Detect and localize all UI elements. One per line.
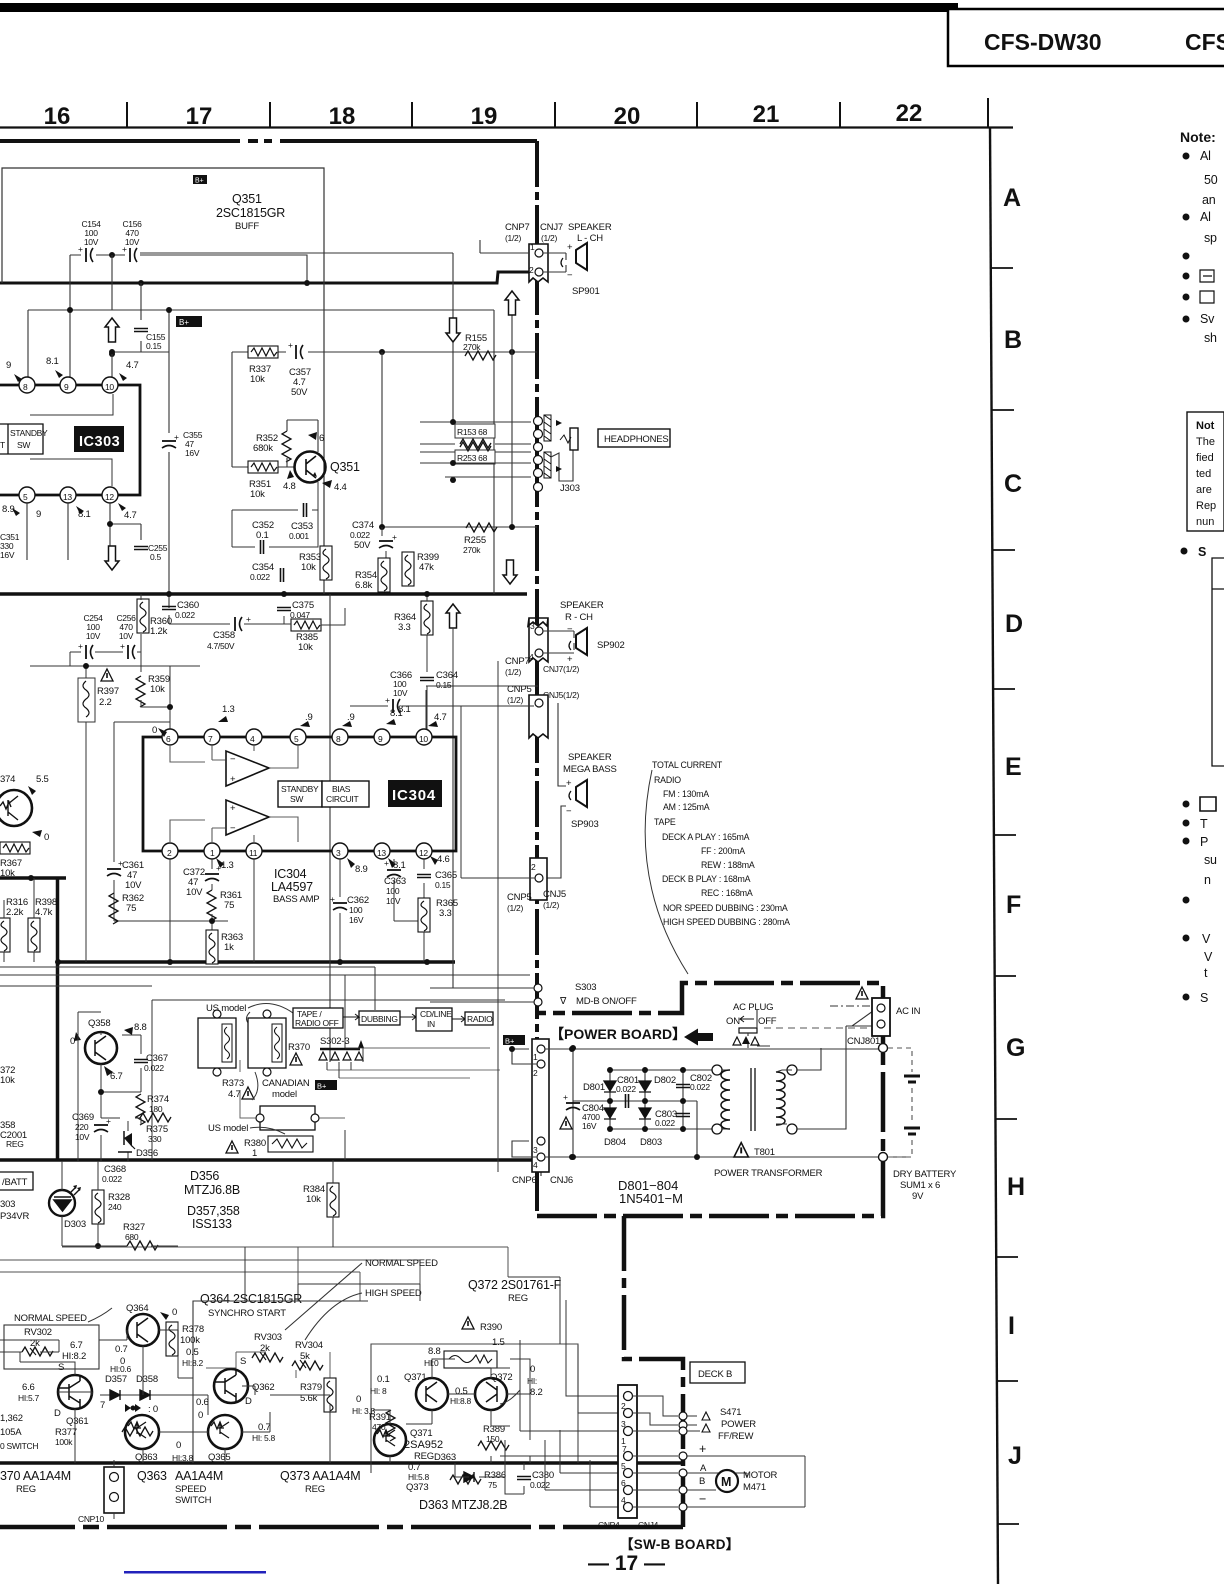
svg-text:RV302: RV302 — [24, 1327, 52, 1338]
svg-text:3.3: 3.3 — [439, 908, 452, 919]
svg-text:0.022: 0.022 — [616, 1084, 636, 1094]
svg-text:2.2k: 2.2k — [6, 907, 24, 918]
svg-text:50V: 50V — [354, 540, 371, 551]
svg-text:NORMAL SPEED: NORMAL SPEED — [365, 1258, 438, 1269]
svg-text:US model: US model — [206, 1003, 246, 1014]
svg-text:4: 4 — [529, 652, 534, 662]
svg-text:+: + — [122, 244, 127, 254]
svg-text:2: 2 — [531, 862, 536, 872]
svg-text:SP903: SP903 — [571, 819, 599, 830]
svg-text:2.2: 2.2 — [99, 697, 112, 708]
svg-text:sp: sp — [1204, 231, 1217, 245]
svg-text:MEGA BASS: MEGA BASS — [563, 764, 617, 775]
svg-text:REG: REG — [6, 1139, 24, 1149]
svg-text:0: 0 — [530, 1364, 535, 1375]
svg-text:R373: R373 — [222, 1078, 244, 1089]
svg-text:IC304: IC304 — [274, 867, 307, 881]
svg-text:9V: 9V — [912, 1191, 924, 1202]
svg-text:3: 3 — [533, 1145, 538, 1155]
svg-text:P34VR: P34VR — [0, 1211, 29, 1222]
svg-text:RV304: RV304 — [295, 1340, 323, 1351]
svg-text:9: 9 — [64, 382, 69, 392]
svg-text:【POWER BOARD】: 【POWER BOARD】 — [550, 1026, 686, 1042]
svg-text:−: − — [567, 270, 573, 281]
svg-text:8: 8 — [23, 382, 28, 392]
svg-text:100: 100 — [349, 905, 363, 915]
svg-text:16V: 16V — [185, 448, 200, 458]
svg-text:Note:: Note: — [1180, 129, 1216, 145]
svg-text:Al: Al — [1200, 149, 1211, 163]
svg-text:MTZJ6.8B: MTZJ6.8B — [184, 1183, 240, 1197]
svg-text:16: 16 — [44, 103, 71, 130]
svg-text:75: 75 — [126, 903, 136, 914]
svg-text:3: 3 — [336, 848, 341, 858]
svg-text:6: 6 — [621, 1478, 626, 1488]
svg-text:CNJ7(1/2): CNJ7(1/2) — [543, 664, 580, 674]
svg-text:L - CH: L - CH — [577, 233, 603, 244]
svg-text:D357: D357 — [105, 1374, 127, 1385]
svg-text:0.1: 0.1 — [256, 530, 269, 541]
svg-text:−: − — [230, 823, 236, 834]
svg-text:SPEAKER: SPEAKER — [560, 600, 604, 611]
svg-text:R378: R378 — [182, 1324, 204, 1335]
svg-text:6.7: 6.7 — [110, 1071, 123, 1082]
svg-text:D803: D803 — [640, 1137, 662, 1148]
svg-text:RADIO: RADIO — [654, 775, 681, 785]
svg-text:303: 303 — [0, 1199, 15, 1210]
svg-text:+: + — [230, 803, 236, 814]
svg-text:REG: REG — [508, 1293, 528, 1304]
svg-text:CNJ7: CNJ7 — [540, 222, 563, 233]
svg-text:an: an — [1202, 193, 1216, 207]
svg-text:M471: M471 — [743, 1482, 766, 1493]
svg-text:17: 17 — [186, 103, 213, 130]
svg-text:∇: ∇ — [559, 996, 567, 1007]
svg-text:1k: 1k — [224, 942, 234, 953]
svg-text:V: V — [1202, 932, 1211, 946]
svg-text:0: 0 — [152, 725, 157, 736]
svg-text:100k: 100k — [180, 1335, 200, 1346]
svg-text:SYNCHRO START: SYNCHRO START — [208, 1308, 286, 1319]
svg-text:+: + — [120, 641, 125, 651]
svg-text:su: su — [1204, 853, 1217, 867]
svg-text:+: + — [563, 1092, 568, 1102]
svg-text:DECK A PLAY : 165mA: DECK A PLAY : 165mA — [662, 832, 750, 842]
svg-text:Q364: Q364 — [126, 1303, 148, 1314]
svg-text:AC IN: AC IN — [896, 1006, 921, 1017]
svg-text:MD-B ON/OFF: MD-B ON/OFF — [576, 996, 637, 1007]
svg-text:8.9: 8.9 — [355, 864, 368, 875]
svg-text:3: 3 — [530, 621, 535, 631]
svg-text:CNP4: CNP4 — [598, 1520, 620, 1530]
svg-text:0.022: 0.022 — [350, 530, 370, 540]
svg-text:CIRCUIT: CIRCUIT — [326, 794, 358, 804]
svg-text:8.8: 8.8 — [134, 1022, 147, 1033]
svg-text:Q363: Q363 — [135, 1452, 157, 1463]
svg-text:REW : 188mA: REW : 188mA — [701, 860, 755, 870]
svg-text:+: + — [330, 894, 335, 904]
svg-text:HI:3.8: HI:3.8 — [172, 1453, 193, 1463]
svg-text:SPEAKER: SPEAKER — [568, 222, 612, 233]
svg-text:D358: D358 — [136, 1374, 158, 1385]
svg-text:16V: 16V — [0, 550, 15, 560]
svg-text:Q351: Q351 — [330, 460, 360, 474]
svg-text:S303: S303 — [575, 982, 596, 993]
svg-text:V: V — [1204, 950, 1213, 964]
svg-text:SWITCH: SWITCH — [175, 1495, 212, 1506]
svg-text:: 0: : 0 — [148, 1404, 158, 1415]
svg-text:D356: D356 — [136, 1148, 158, 1159]
svg-text:Q373: Q373 — [406, 1482, 428, 1493]
svg-text:D: D — [54, 1408, 61, 1419]
svg-text:CD/LINE: CD/LINE — [420, 1009, 452, 1019]
svg-text:Sv: Sv — [1200, 312, 1215, 326]
svg-text:8: 8 — [336, 734, 341, 744]
svg-text:−: − — [567, 624, 573, 635]
svg-text:S: S — [240, 1356, 246, 1367]
svg-text:11: 11 — [249, 848, 258, 858]
svg-text:MOTOR: MOTOR — [743, 1470, 778, 1481]
svg-text:4.8: 4.8 — [283, 481, 296, 492]
svg-text:4.7: 4.7 — [124, 510, 137, 521]
svg-text:150: 150 — [486, 1434, 500, 1444]
svg-text:10k: 10k — [301, 562, 316, 573]
svg-text:OFF: OFF — [758, 1016, 777, 1027]
svg-text:HIGH SPEED: HIGH SPEED — [365, 1288, 422, 1299]
svg-text:CFS: CFS — [1185, 29, 1224, 55]
svg-text:B+: B+ — [505, 1037, 515, 1046]
svg-text:ON: ON — [726, 1016, 740, 1027]
svg-text:AA1A4M: AA1A4M — [175, 1469, 223, 1483]
svg-text:10k: 10k — [250, 374, 265, 385]
svg-text:10k: 10k — [250, 489, 265, 500]
svg-text:0.022: 0.022 — [530, 1480, 550, 1490]
svg-text:10V: 10V — [75, 1132, 90, 1142]
svg-text:0.022: 0.022 — [144, 1063, 164, 1073]
svg-text:6.6: 6.6 — [22, 1382, 35, 1393]
svg-text:C358: C358 — [213, 630, 235, 641]
svg-text:S302-3: S302-3 — [320, 1036, 349, 1047]
svg-text:(1/2): (1/2) — [543, 900, 559, 910]
svg-text:Q351: Q351 — [232, 192, 262, 206]
svg-text:(1/2): (1/2) — [507, 903, 523, 913]
svg-text:HEADPHONES: HEADPHONES — [604, 434, 669, 445]
svg-text:20: 20 — [614, 103, 641, 130]
svg-text:4: 4 — [250, 734, 255, 744]
svg-text:C: C — [1004, 470, 1022, 498]
svg-text:0: 0 — [198, 1410, 203, 1421]
svg-text:SP901: SP901 — [572, 286, 600, 297]
svg-text:DECK B: DECK B — [698, 1369, 732, 1380]
svg-text:+: + — [230, 774, 236, 785]
svg-text:75: 75 — [224, 900, 234, 911]
svg-text:STANDBY: STANDBY — [281, 784, 319, 794]
svg-text:1: 1 — [252, 1148, 257, 1159]
svg-text:CNJ801: CNJ801 — [847, 1036, 880, 1047]
svg-text:.9: .9 — [305, 712, 313, 723]
svg-text:100: 100 — [386, 886, 400, 896]
svg-text:0.022: 0.022 — [690, 1082, 710, 1092]
svg-text:+: + — [567, 242, 573, 253]
svg-text:H: H — [1007, 1173, 1025, 1201]
svg-text:8.2: 8.2 — [530, 1387, 543, 1398]
svg-text:D363: D363 — [434, 1452, 456, 1463]
svg-text:AM : 125mA: AM : 125mA — [663, 802, 710, 812]
svg-text:BUFF: BUFF — [235, 221, 259, 232]
svg-text:Al: Al — [1200, 210, 1211, 224]
svg-text:2: 2 — [167, 848, 172, 858]
svg-text:R370: R370 — [288, 1042, 310, 1053]
svg-text:HI:8.2: HI:8.2 — [182, 1358, 203, 1368]
svg-text:REC : 168mA: REC : 168mA — [701, 888, 753, 898]
svg-text:HI:5.8: HI:5.8 — [408, 1472, 429, 1482]
svg-text:0.6: 0.6 — [196, 1397, 209, 1408]
svg-text:10k: 10k — [0, 868, 15, 879]
svg-text:370 AA1A4M: 370 AA1A4M — [0, 1469, 71, 1483]
svg-text:13: 13 — [377, 848, 386, 858]
svg-text:10V: 10V — [386, 896, 401, 906]
svg-text:0.022: 0.022 — [250, 572, 270, 582]
svg-text:8.1: 8.1 — [46, 356, 59, 367]
svg-text:B+: B+ — [317, 1082, 327, 1091]
svg-text:7: 7 — [100, 1400, 105, 1411]
svg-text:CNP5: CNP5 — [507, 892, 532, 903]
svg-text:CNJ6: CNJ6 — [550, 1175, 573, 1186]
svg-text:CNP7: CNP7 — [505, 222, 530, 233]
svg-text:4.7: 4.7 — [126, 360, 139, 371]
svg-text:IN: IN — [427, 1019, 435, 1029]
svg-text:0: 0 — [70, 1036, 75, 1047]
svg-text:10V: 10V — [84, 237, 99, 247]
svg-text:NORMAL SPEED: NORMAL SPEED — [14, 1313, 87, 1324]
svg-text:S: S — [1200, 991, 1208, 1005]
svg-text:100k: 100k — [55, 1437, 73, 1447]
svg-text:47k: 47k — [419, 562, 434, 573]
svg-text:DUBBING: DUBBING — [361, 1014, 398, 1024]
svg-text:0.7: 0.7 — [115, 1344, 128, 1355]
svg-text:IC304: IC304 — [392, 787, 436, 804]
svg-text:HIGH SPEED DUBBING : 280mA: HIGH SPEED DUBBING : 280mA — [663, 917, 790, 927]
svg-text:10: 10 — [105, 382, 114, 392]
svg-text:Q363: Q363 — [137, 1469, 167, 1483]
svg-text:22: 22 — [896, 100, 923, 127]
svg-text:R153 68: R153 68 — [457, 427, 488, 437]
svg-text:Q371: Q371 — [410, 1428, 432, 1439]
svg-text:are: are — [1196, 484, 1212, 496]
svg-text:B: B — [1004, 326, 1022, 354]
svg-text:SPEAKER: SPEAKER — [568, 752, 612, 763]
svg-text:−: − — [566, 806, 572, 817]
svg-text:7: 7 — [622, 1444, 627, 1454]
svg-text:R - CH: R - CH — [565, 612, 593, 623]
svg-text:10k: 10k — [298, 642, 313, 653]
svg-text:ISS133: ISS133 — [192, 1217, 232, 1231]
svg-text:HI: 8: HI: 8 — [370, 1386, 387, 1396]
svg-text:+: + — [78, 244, 83, 254]
svg-text:12: 12 — [105, 492, 114, 502]
svg-text:D363 MTZJ8.2B: D363 MTZJ8.2B — [419, 1498, 507, 1512]
svg-text:18: 18 — [329, 103, 356, 130]
svg-text:4.6: 4.6 — [437, 854, 450, 865]
svg-text:R397: R397 — [97, 686, 119, 697]
svg-text:D801: D801 — [583, 1082, 605, 1093]
svg-text:D356: D356 — [190, 1169, 219, 1183]
svg-text:220: 220 — [75, 1122, 89, 1132]
svg-text:374: 374 — [0, 774, 15, 785]
svg-text:330: 330 — [148, 1134, 162, 1144]
svg-text:0: 0 — [356, 1394, 361, 1405]
svg-text:+: + — [385, 695, 390, 705]
svg-text:Q373 AA1A4M: Q373 AA1A4M — [280, 1469, 361, 1483]
svg-text:10V: 10V — [393, 688, 408, 698]
svg-text:3: 3 — [621, 1419, 626, 1429]
svg-text:FM : 130mA: FM : 130mA — [663, 789, 709, 799]
svg-text:270k: 270k — [463, 545, 481, 555]
svg-text:B: B — [699, 1476, 705, 1487]
svg-text:0.15: 0.15 — [435, 880, 451, 890]
svg-text:Q372 2S01761-F: Q372 2S01761-F — [468, 1278, 562, 1292]
svg-text:1.3: 1.3 — [221, 860, 234, 871]
svg-text:IC303: IC303 — [79, 434, 120, 450]
svg-text:.9: .9 — [347, 712, 355, 723]
svg-text:S471: S471 — [720, 1407, 741, 1418]
svg-text:CNP7: CNP7 — [505, 656, 530, 667]
svg-text:/BATT: /BATT — [2, 1177, 28, 1188]
svg-text:4: 4 — [621, 1495, 626, 1505]
svg-text:16V: 16V — [349, 915, 364, 925]
svg-text:D: D — [245, 1396, 252, 1407]
svg-text:DRY BATTERY: DRY BATTERY — [893, 1169, 957, 1180]
svg-text:1.3: 1.3 — [222, 704, 235, 715]
svg-text:+: + — [246, 614, 251, 624]
svg-text:5: 5 — [621, 1461, 626, 1471]
svg-text:n: n — [1204, 873, 1211, 887]
svg-text:13: 13 — [63, 492, 72, 502]
svg-text:−: − — [230, 754, 236, 765]
svg-text:Not: Not — [1196, 420, 1215, 432]
svg-text:0.022: 0.022 — [655, 1118, 675, 1128]
svg-text:75: 75 — [488, 1480, 497, 1490]
svg-text:270k: 270k — [463, 342, 481, 352]
svg-text:REG: REG — [305, 1484, 325, 1495]
svg-text:CNJ4: CNJ4 — [638, 1520, 659, 1530]
svg-text:50V: 50V — [291, 387, 308, 398]
svg-text:1: 1 — [210, 848, 215, 858]
svg-text:FF : 200mA: FF : 200mA — [701, 846, 745, 856]
svg-text:0.15: 0.15 — [436, 680, 452, 690]
svg-text:6: 6 — [319, 433, 324, 444]
svg-text:+: + — [699, 1442, 706, 1456]
svg-text:0.7: 0.7 — [258, 1422, 271, 1433]
svg-text:1N5401−M: 1N5401−M — [619, 1191, 683, 1206]
svg-text:SW: SW — [17, 440, 30, 450]
svg-text:fied: fied — [1196, 452, 1214, 464]
svg-text:10k: 10k — [306, 1194, 321, 1205]
svg-text:1.5: 1.5 — [492, 1337, 505, 1348]
svg-text:19: 19 — [471, 103, 498, 130]
svg-text:5: 5 — [23, 492, 28, 502]
svg-text:180: 180 — [149, 1104, 163, 1114]
svg-text:10V: 10V — [119, 631, 134, 641]
svg-text:10: 10 — [419, 734, 428, 744]
svg-text:8.1: 8.1 — [78, 509, 91, 520]
svg-text:R390: R390 — [480, 1322, 502, 1333]
svg-text:【SW-B BOARD】: 【SW-B BOARD】 — [620, 1537, 740, 1552]
svg-text:10V: 10V — [86, 631, 101, 641]
svg-text:D804: D804 — [604, 1137, 626, 1148]
svg-text:R379: R379 — [300, 1382, 322, 1393]
svg-text:16V: 16V — [582, 1121, 597, 1131]
svg-text:D: D — [1005, 610, 1023, 638]
svg-text:I: I — [1008, 1312, 1015, 1340]
svg-text:Q364 2SC1815GR: Q364 2SC1815GR — [200, 1292, 302, 1306]
svg-text:R253 68: R253 68 — [457, 453, 488, 463]
svg-text:0: 0 — [44, 832, 49, 843]
svg-text:E: E — [1005, 753, 1022, 781]
svg-text:0.1: 0.1 — [377, 1374, 390, 1385]
svg-text:S: S — [1198, 545, 1206, 559]
svg-text:A: A — [700, 1463, 707, 1474]
svg-text:9: 9 — [6, 360, 11, 371]
svg-text:SW: SW — [290, 794, 303, 804]
svg-text:HI:8.8: HI:8.8 — [450, 1396, 471, 1406]
svg-text:0.5: 0.5 — [186, 1347, 199, 1358]
svg-text:Q365: Q365 — [208, 1452, 230, 1463]
svg-text:+: + — [174, 432, 179, 442]
svg-text:10V: 10V — [125, 237, 140, 247]
svg-text:sh: sh — [1204, 331, 1217, 345]
svg-text:+: + — [392, 532, 397, 542]
svg-text:10k: 10k — [150, 684, 165, 695]
svg-text:8.9: 8.9 — [2, 504, 15, 515]
svg-text:M: M — [721, 1475, 731, 1489]
svg-text:2: 2 — [529, 265, 534, 275]
svg-text:A: A — [1003, 184, 1021, 212]
svg-text:FF/REW: FF/REW — [718, 1431, 753, 1442]
svg-text:(1/2): (1/2) — [505, 233, 521, 243]
svg-text:4.7: 4.7 — [228, 1089, 241, 1100]
svg-text:NOR SPEED DUBBING : 230mA: NOR SPEED DUBBING : 230mA — [663, 903, 788, 913]
svg-text:5.5: 5.5 — [36, 774, 49, 785]
svg-text:J: J — [1008, 1442, 1022, 1470]
svg-text:CNP6: CNP6 — [512, 1175, 537, 1186]
svg-text:HI:5.7: HI:5.7 — [18, 1393, 39, 1403]
svg-text:T801: T801 — [754, 1147, 775, 1158]
svg-text:6.8k: 6.8k — [355, 580, 373, 591]
svg-text:1.2k: 1.2k — [150, 626, 168, 637]
svg-text:6.7: 6.7 — [70, 1340, 83, 1351]
svg-text:4.4: 4.4 — [334, 482, 347, 493]
svg-text:HI:: HI: — [527, 1376, 537, 1386]
svg-text:nun: nun — [1196, 516, 1214, 528]
svg-text:HI: 3.8: HI: 3.8 — [352, 1406, 376, 1416]
svg-text:TAPE: TAPE — [654, 817, 676, 827]
svg-text:0: 0 — [176, 1440, 181, 1451]
svg-text:8.1: 8.1 — [390, 708, 403, 719]
svg-text:10V: 10V — [125, 880, 142, 891]
svg-text:2SC1815GR: 2SC1815GR — [216, 206, 285, 220]
svg-text:7: 7 — [208, 734, 213, 744]
svg-text:0.15: 0.15 — [146, 341, 162, 351]
svg-text:B+: B+ — [195, 178, 204, 185]
svg-text:(1/2): (1/2) — [541, 233, 557, 243]
svg-text:REG: REG — [16, 1484, 36, 1495]
svg-text:REG: REG — [414, 1451, 434, 1462]
svg-text:CNJ5: CNJ5 — [543, 889, 566, 900]
svg-text:0.022: 0.022 — [175, 610, 195, 620]
svg-text:TOTAL CURRENT: TOTAL CURRENT — [652, 760, 723, 770]
svg-text:5: 5 — [294, 734, 299, 744]
